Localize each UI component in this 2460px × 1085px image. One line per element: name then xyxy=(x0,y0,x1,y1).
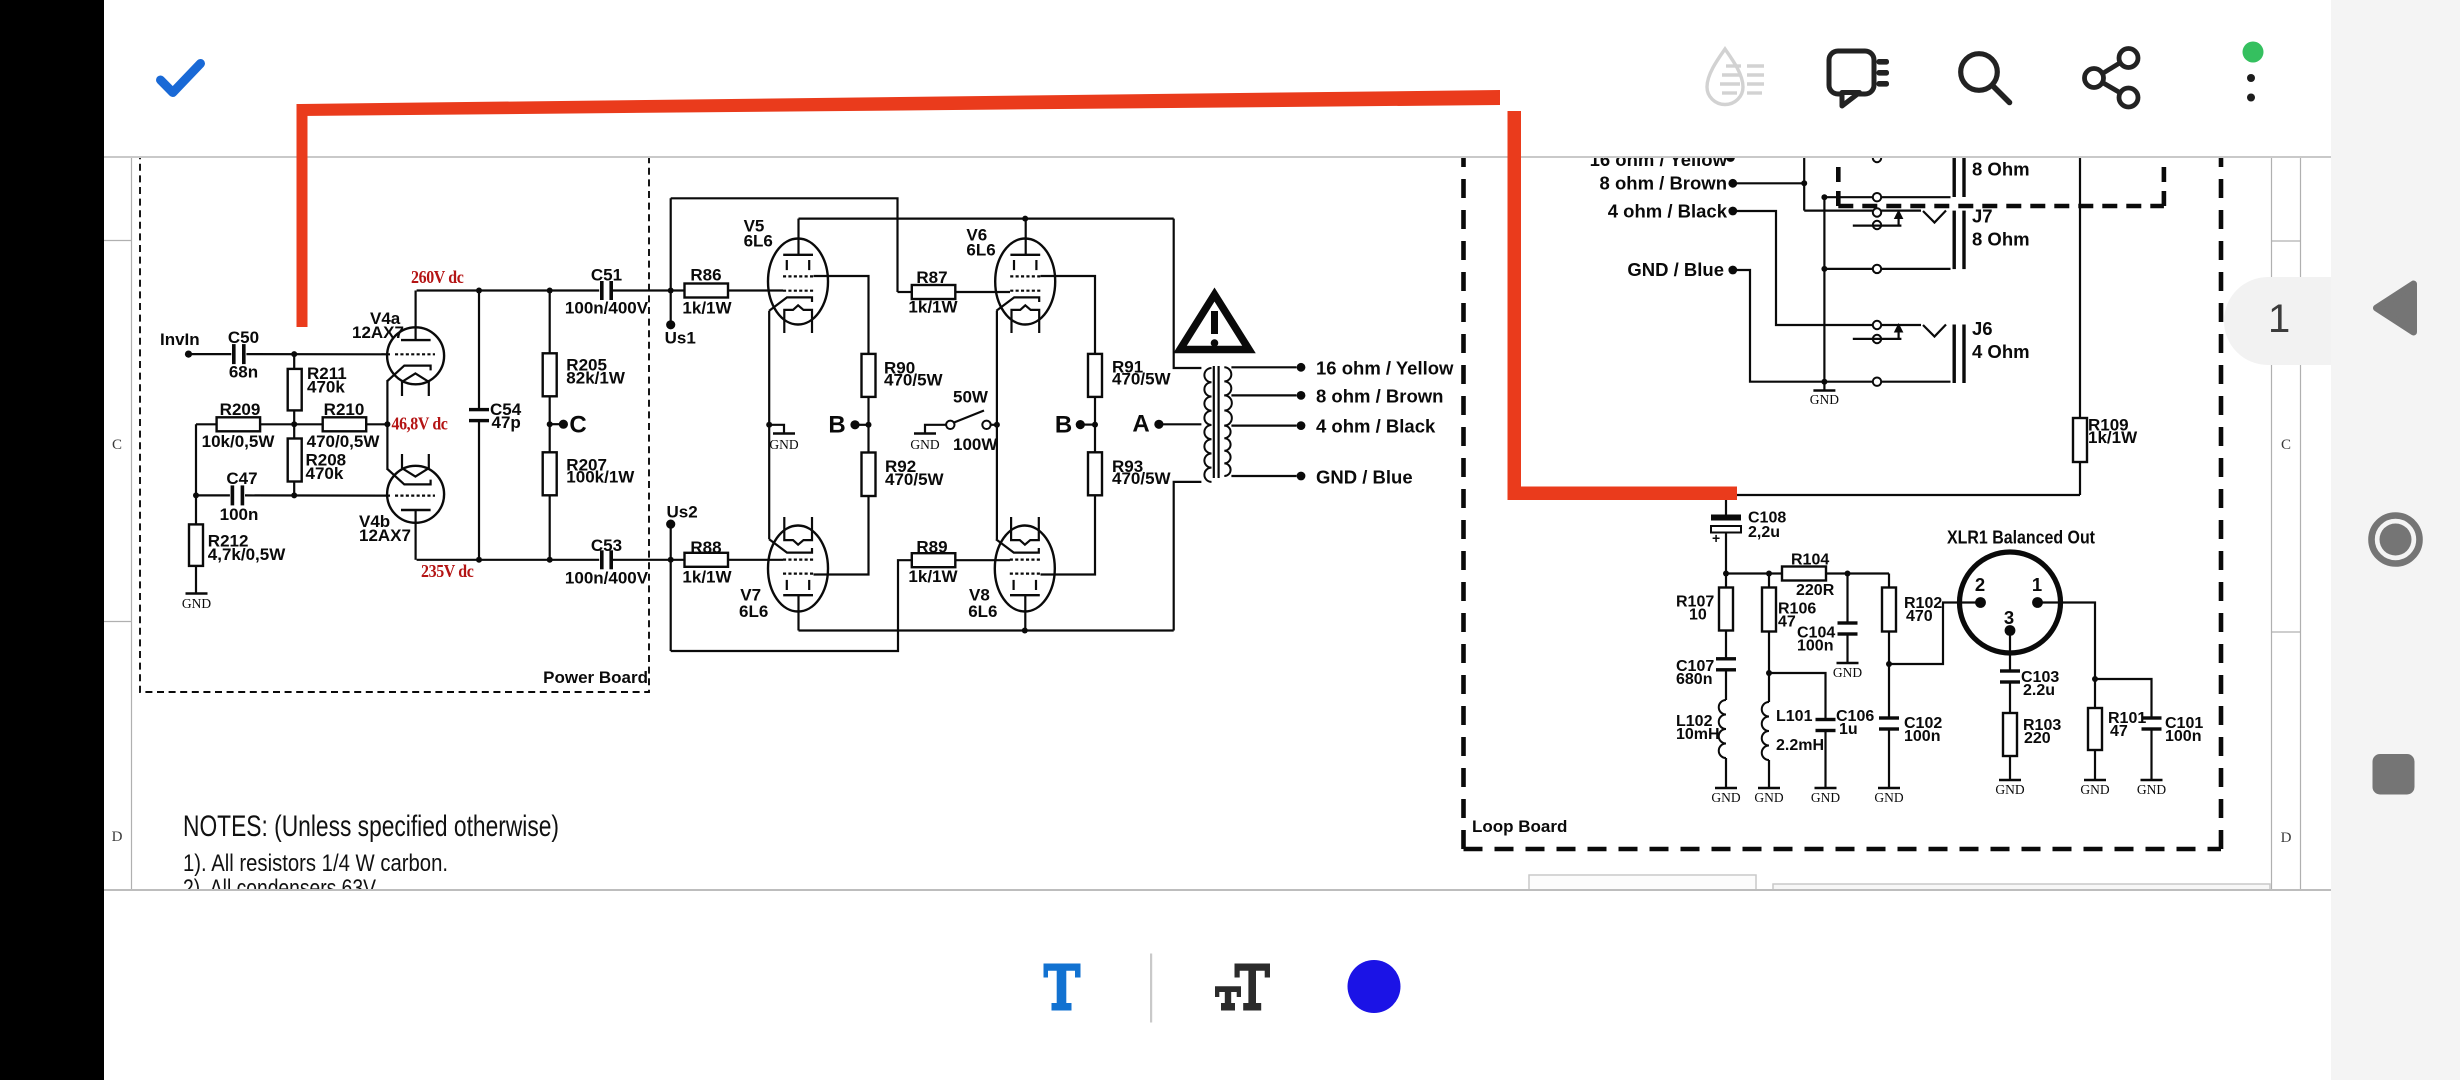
top app toolbar xyxy=(104,0,2331,158)
svg-text:6L6: 6L6 xyxy=(968,602,997,621)
ink annotation icon (disabled) xyxy=(1707,49,1764,105)
resistor R106 xyxy=(1762,588,1776,632)
node InvIn terminal xyxy=(185,351,192,358)
svg-text:2: 2 xyxy=(1975,574,1985,595)
wire R212 top xyxy=(195,495,197,524)
svg-text:C47: C47 xyxy=(226,469,257,488)
svg-text:47: 47 xyxy=(2110,723,2128,740)
text tool icon (active) xyxy=(1044,964,1081,1011)
tube V5 6L6 xyxy=(768,239,828,325)
resistor R209 xyxy=(217,417,261,431)
wire V5/V7 cathode line xyxy=(768,311,770,539)
resistor R87 xyxy=(912,285,956,299)
svg-text:2.2u: 2.2u xyxy=(2023,682,2055,699)
svg-text:12AX7: 12AX7 xyxy=(352,323,404,342)
page number pill xyxy=(2224,277,2331,365)
wire pin3 wire xyxy=(2009,631,2011,672)
resistor R90 xyxy=(862,354,876,397)
ground R101 ground xyxy=(2084,779,2106,781)
svg-text:8 Ohm: 8 Ohm xyxy=(1972,159,2030,180)
ground R212 ground xyxy=(186,592,208,594)
svg-text:100n/400V: 100n/400V xyxy=(565,299,649,318)
svg-text:GND: GND xyxy=(2080,782,2109,797)
wire C47 left xyxy=(196,494,230,496)
node XLR pin3 xyxy=(2005,625,2016,636)
Power Board dashed border xyxy=(140,120,649,692)
text size icon xyxy=(1215,964,1270,1011)
wire C102 gnd wire xyxy=(1888,729,1890,788)
node cathode bias node xyxy=(384,421,390,427)
wire feedback wire xyxy=(1726,494,2080,496)
resistor R211 xyxy=(288,369,302,411)
resistor R104 xyxy=(1782,567,1826,581)
svg-text:R88: R88 xyxy=(690,538,721,557)
node sleeve n3 xyxy=(1821,379,1827,385)
node node C xyxy=(559,420,568,429)
wire R89 out xyxy=(955,559,1010,561)
svg-text:GND: GND xyxy=(1995,782,2024,797)
ground R103 ground xyxy=(1999,779,2021,781)
nav home button xyxy=(2372,516,2420,564)
node V6 cathode node xyxy=(994,422,1000,428)
tube V4b 12AX7 xyxy=(387,466,444,523)
resistor R89 xyxy=(912,553,956,567)
ground C101 ground xyxy=(2141,779,2163,781)
wire R92 to V7 screen xyxy=(814,496,869,575)
node L101/C106 node xyxy=(1766,670,1772,676)
wire R207 bot wire xyxy=(549,495,551,560)
wire gnd feed wire xyxy=(1737,270,1951,382)
wire R88 out xyxy=(728,559,783,561)
svg-text:A: A xyxy=(1132,411,1149,438)
svg-text:R209: R209 xyxy=(220,400,261,419)
wire Us2 vertical xyxy=(670,524,672,651)
wire loop bus b xyxy=(1826,572,1889,574)
svg-text:68n: 68n xyxy=(229,363,258,382)
svg-text:GND / Blue: GND / Blue xyxy=(1316,467,1413,488)
node 16ohm feed xyxy=(1726,153,1735,162)
red annotation left vertical stroke xyxy=(297,104,308,327)
page column line left xyxy=(131,157,133,889)
resistor R103 xyxy=(2003,713,2017,756)
wire pin2 wire xyxy=(1889,603,1981,665)
wire V5 screen to R90 xyxy=(814,276,869,354)
node sleeve n1 xyxy=(1821,194,1827,200)
node C51/Us1 node xyxy=(668,288,674,294)
inductor T1 primary xyxy=(1204,368,1211,482)
svg-text:100n: 100n xyxy=(220,505,259,524)
node Us1 terminal xyxy=(666,320,675,329)
svg-text:50W: 50W xyxy=(953,388,989,407)
share icon xyxy=(2085,49,2139,108)
svg-text:10mH: 10mH xyxy=(1676,726,1720,743)
node R211/R209/R210 node xyxy=(291,421,297,427)
svg-text:GND: GND xyxy=(910,437,939,452)
wire sleeve bus xyxy=(1823,197,1825,382)
tube V6 6L6 xyxy=(995,239,1055,325)
resistor R109 xyxy=(2073,418,2087,462)
wire R106-L101 xyxy=(1768,632,1770,703)
svg-text:470/5W: 470/5W xyxy=(884,371,944,390)
ground L101 ground xyxy=(1758,787,1780,789)
resistor R107 xyxy=(1719,588,1733,631)
svg-text:GND: GND xyxy=(1874,790,1903,805)
resistor R86 xyxy=(685,284,729,298)
svg-text:10: 10 xyxy=(1689,607,1707,624)
svg-text:B: B xyxy=(1055,412,1072,439)
node XLR pin2 xyxy=(1975,597,1986,608)
resistor R210 xyxy=(323,417,367,431)
inductor L102 xyxy=(1719,700,1726,758)
node V5 cathode node xyxy=(766,422,772,428)
svg-text:R86: R86 xyxy=(690,266,721,285)
jack J8 top 8 Ohm (cut) xyxy=(1953,145,1956,197)
svg-text:GND: GND xyxy=(1754,790,1783,805)
wire R87 in xyxy=(898,291,912,293)
wire tap 4ohm xyxy=(1231,425,1296,427)
wire R106 top xyxy=(1768,574,1770,588)
svg-text:C51: C51 xyxy=(591,266,622,285)
svg-text:470/5W: 470/5W xyxy=(885,470,945,489)
wire L102 gnd wire xyxy=(1725,758,1727,788)
node 16ohm tap xyxy=(1297,363,1306,372)
comment icon xyxy=(1829,51,1874,94)
ground C106 ground xyxy=(1815,787,1837,789)
svg-text:D: D xyxy=(112,829,123,845)
svg-text:R104: R104 xyxy=(1791,552,1829,569)
wire V4a/V4b cathode link xyxy=(386,380,388,470)
wire C103-R103 xyxy=(2009,682,2011,713)
wire R101 gnd wire xyxy=(2094,750,2096,780)
svg-text:R210: R210 xyxy=(324,400,365,419)
svg-text:R89: R89 xyxy=(916,538,947,557)
wire R86 out xyxy=(728,289,783,291)
svg-text:GND: GND xyxy=(1833,665,1862,680)
svg-text:R87: R87 xyxy=(916,268,947,287)
node B1 junction xyxy=(866,422,872,428)
wire jack gnd stub xyxy=(1823,382,1825,391)
wire 8ohm feed wire xyxy=(1737,182,1804,184)
wire rail B Us2 to R89 xyxy=(671,560,912,651)
svg-text:100n/400V: 100n/400V xyxy=(565,569,649,588)
wire tap gnd xyxy=(1231,475,1296,477)
svg-text:10k/0,5W: 10k/0,5W xyxy=(202,432,276,451)
capacitor C101 xyxy=(2142,716,2162,719)
wire R210 left xyxy=(294,423,323,425)
left black bar xyxy=(0,0,104,1080)
resistor R93 xyxy=(1088,452,1102,495)
svg-text:100n: 100n xyxy=(1797,638,1833,655)
resistor R205 xyxy=(543,353,557,396)
wire tap 16ohm xyxy=(1231,366,1296,368)
wire R209 left xyxy=(196,423,217,425)
ground jack ground xyxy=(1813,389,1835,391)
svg-text:1k/1W: 1k/1W xyxy=(682,568,732,587)
node R101 node xyxy=(2092,676,2098,682)
node C54 top node xyxy=(476,288,482,294)
wire V4a plate lead xyxy=(415,291,417,341)
svg-text:1k/1W: 1k/1W xyxy=(2088,428,2138,447)
capacitor C104 xyxy=(1838,621,1858,624)
svg-text:6L6: 6L6 xyxy=(739,602,768,621)
node B2 junction xyxy=(1092,422,1098,428)
node R207 bot node xyxy=(547,557,553,563)
wire R208 bottom xyxy=(293,482,295,496)
svg-text:C53: C53 xyxy=(591,536,622,555)
wire C54 bot wire xyxy=(478,421,480,560)
node node A xyxy=(1154,420,1163,429)
svg-text:GND: GND xyxy=(1811,790,1840,805)
svg-text:8 ohm / Brown: 8 ohm / Brown xyxy=(1600,173,1727,194)
inductor T1 secondary c xyxy=(1224,426,1230,476)
node grid node xyxy=(291,351,297,357)
wire R205 bot wire xyxy=(549,396,551,452)
capacitor C102 xyxy=(1879,716,1899,719)
node R205 top node xyxy=(547,288,553,294)
red annotation right vertical stroke xyxy=(1508,111,1522,498)
svg-text:J7: J7 xyxy=(1972,206,1993,227)
wire R211 top xyxy=(293,354,295,369)
node C node small xyxy=(547,421,553,427)
capacitor C103 xyxy=(2000,669,2020,672)
wire C47 to V4b grid xyxy=(245,494,390,496)
node C47 left node xyxy=(193,492,199,498)
svg-text:XLR1 Balanced Out: XLR1 Balanced Out xyxy=(1947,527,2095,548)
ground cathode ground left xyxy=(773,432,795,434)
node gnd feed xyxy=(1728,266,1737,275)
node sleeve n2 xyxy=(1821,266,1827,272)
dashed box around top jack xyxy=(1838,140,2164,206)
capacitor C51 xyxy=(600,281,604,300)
node gnd tap xyxy=(1297,472,1306,481)
wire pin1 wire xyxy=(2038,603,2096,709)
wire C106 gnd wire xyxy=(1824,731,1826,789)
resistor R88 xyxy=(685,553,729,567)
svg-text:4,7k/0,5W: 4,7k/0,5W xyxy=(208,545,286,564)
transformer core xyxy=(1213,366,1215,478)
ground L102 ground xyxy=(1715,787,1737,789)
svg-text:680n: 680n xyxy=(1676,671,1712,688)
color swatch (blue) xyxy=(1348,960,1401,1013)
svg-text:4 ohm / Black: 4 ohm / Black xyxy=(1608,201,1728,222)
svg-text:470/0,5W: 470/0,5W xyxy=(307,432,381,451)
svg-text:4 ohm / Black: 4 ohm / Black xyxy=(1316,416,1436,437)
svg-text:Power Board: Power Board xyxy=(543,668,648,687)
svg-text:C: C xyxy=(2281,437,2291,453)
ground C102 ground xyxy=(1878,787,1900,789)
wire 16ohm vertical xyxy=(1803,150,1805,211)
wire switch gnd hook xyxy=(925,425,946,434)
node XLR pin1 xyxy=(2032,597,2043,608)
node V6 anode node xyxy=(1022,216,1028,222)
capacitor C53 xyxy=(600,550,604,569)
check/done icon xyxy=(161,64,201,93)
wire C54 top wire xyxy=(478,291,480,410)
svg-text:1u: 1u xyxy=(1839,721,1858,738)
wire R109 bottom wire xyxy=(2079,462,2081,495)
wire plate rail up xyxy=(1174,482,1202,631)
toolbar divider xyxy=(1150,954,1152,1023)
svg-text:2,2u: 2,2u xyxy=(1748,524,1780,541)
tube V8 6L6 xyxy=(995,526,1055,612)
svg-text:GND: GND xyxy=(2137,782,2166,797)
node node B1 xyxy=(850,420,859,429)
svg-text:16 ohm / Yellow: 16 ohm / Yellow xyxy=(1316,358,1454,379)
svg-text:220R: 220R xyxy=(1796,582,1835,599)
svg-text:GND / Blue: GND / Blue xyxy=(1627,259,1724,280)
svg-text:12AX7: 12AX7 xyxy=(359,526,411,545)
wire R208 top xyxy=(293,424,295,438)
overflow menu icon xyxy=(2247,54,2255,62)
green status dot xyxy=(2243,42,2264,63)
svg-text:D: D xyxy=(2281,830,2292,846)
wire transformer top leg xyxy=(1174,219,1202,368)
wire C108 bot wire xyxy=(1725,533,1727,588)
wire C104 feed xyxy=(1846,574,1848,624)
wire 260V rail xyxy=(417,289,600,291)
android nav sidebar xyxy=(2331,0,2460,1080)
wire input to C50 xyxy=(189,353,232,355)
svg-text:4 Ohm: 4 Ohm xyxy=(1972,341,2030,362)
svg-text:8 ohm / Brown: 8 ohm / Brown xyxy=(1316,386,1443,407)
node V4b grid node xyxy=(291,492,297,498)
wire R102 top xyxy=(1888,574,1890,588)
wire V4b plate lead xyxy=(415,510,417,560)
svg-text:C50: C50 xyxy=(228,328,259,347)
wire loop bus xyxy=(1726,572,1782,574)
wire C101 gnd wire xyxy=(2150,729,2152,780)
wire C106 feed xyxy=(1769,673,1826,720)
node C104 top node xyxy=(1845,571,1851,577)
svg-text:82k/1W: 82k/1W xyxy=(566,369,626,388)
wire R87 out xyxy=(955,291,1010,293)
svg-text:GND: GND xyxy=(182,596,211,611)
wire V6 screen to R91 xyxy=(1041,276,1096,354)
svg-text:8 Ohm: 8 Ohm xyxy=(1972,229,2030,250)
svg-text:InvIn: InvIn xyxy=(160,330,200,349)
wire R210 right xyxy=(366,423,387,425)
svg-text:47: 47 xyxy=(1778,614,1796,631)
wire 235V rail b xyxy=(610,559,685,561)
resistor R101 xyxy=(2088,708,2102,750)
wire C101 feed xyxy=(2095,679,2152,718)
warning triangle symbol xyxy=(1180,295,1249,350)
capacitor C54 xyxy=(469,408,489,411)
resistor R208 xyxy=(288,439,302,482)
tube V4a 12AX7 xyxy=(387,327,444,384)
node 8ohm junction xyxy=(1801,180,1807,186)
red annotation horizontal top stroke xyxy=(300,90,1500,116)
wire C108 top wire xyxy=(1725,495,1727,515)
node R106 top node xyxy=(1766,571,1772,577)
node V8 plate node xyxy=(1022,628,1028,634)
wire plate rail V7/V8 xyxy=(799,629,1174,631)
wire J7 sleeve wire xyxy=(1824,268,1950,270)
wire R209 node down xyxy=(195,424,197,495)
wire J6 switch underline xyxy=(1853,338,1902,340)
wire C107-L102 xyxy=(1725,670,1727,700)
wire C50 to V4a grid xyxy=(246,353,390,355)
svg-text:470k: 470k xyxy=(307,378,345,397)
wire R103 gnd wire xyxy=(2009,756,2011,780)
node node B2 xyxy=(1076,420,1085,429)
svg-text:46,8V dc: 46,8V dc xyxy=(392,414,449,434)
node 8ohm tap xyxy=(1297,391,1306,400)
svg-text:100n: 100n xyxy=(1904,728,1940,745)
node C53/Us2 node xyxy=(668,557,674,563)
nav recents square xyxy=(2373,754,2415,795)
wire 4ohm feed wire xyxy=(1737,211,1921,325)
resistor R91 xyxy=(1088,354,1102,397)
wire B2 stub xyxy=(1080,424,1095,426)
svg-text:260V dc: 260V dc xyxy=(411,267,464,287)
wire 235V rail xyxy=(417,559,600,561)
node loop node main xyxy=(1723,571,1729,577)
wire top rail V5-transformer xyxy=(799,218,1174,220)
svg-text:6L6: 6L6 xyxy=(744,232,773,251)
svg-text:470k: 470k xyxy=(306,464,344,483)
capacitor C107 xyxy=(1716,657,1736,660)
wire R211 bottom xyxy=(293,410,295,424)
wire tap 8ohm xyxy=(1231,394,1296,396)
svg-text:100k/1W: 100k/1W xyxy=(566,468,635,487)
wire top rail Us1-R87 xyxy=(671,198,898,292)
node Us2 terminal xyxy=(666,520,675,529)
svg-text:3: 3 xyxy=(2004,607,2014,628)
wire switch to cathode xyxy=(991,424,997,426)
wire C104 gnd wire xyxy=(1846,634,1848,663)
svg-text:L101: L101 xyxy=(1776,708,1813,725)
svg-text:C: C xyxy=(112,437,122,453)
inductor L101 xyxy=(1762,702,1769,760)
page column lines right xyxy=(2271,157,2273,889)
node 4ohm feed xyxy=(1728,207,1737,216)
wire Us1 vertical xyxy=(670,198,672,324)
wire 260V rail b xyxy=(610,289,685,291)
svg-text:470/5W: 470/5W xyxy=(1112,469,1172,488)
jack J6 4 Ohm xyxy=(1923,325,1946,337)
wire R102-C102 xyxy=(1888,632,1890,719)
capacitor C106 xyxy=(1816,718,1836,721)
capacitor C47 xyxy=(231,485,235,505)
bottom annotation toolbar xyxy=(104,891,2331,1080)
wire L101 gnd wire xyxy=(1768,760,1770,788)
svg-text:100W: 100W xyxy=(953,435,998,454)
resistor R207 xyxy=(543,452,557,495)
ground switch ground xyxy=(914,432,936,434)
svg-text:GND: GND xyxy=(1711,790,1740,805)
inductor T1 secondary a xyxy=(1224,367,1231,395)
wire R107-C107 xyxy=(1725,631,1727,660)
wire A to primary tap xyxy=(1159,423,1202,425)
resistor R102 xyxy=(1882,588,1896,632)
wire R109 top wire xyxy=(2079,150,2081,418)
wire V6/V8 cathode line xyxy=(996,311,998,539)
nav back triangle xyxy=(2377,284,2414,332)
node 4ohm tap xyxy=(1297,421,1306,430)
svg-text:100n: 100n xyxy=(2165,728,2201,745)
wire J7 tip wire xyxy=(1804,210,1921,212)
wire R90 to B1 xyxy=(867,397,869,453)
svg-text:2.2mH: 2.2mH xyxy=(1776,737,1824,754)
wire R91 to B2 xyxy=(1094,397,1096,452)
node C54 bot node xyxy=(476,557,482,563)
svg-text:220: 220 xyxy=(2024,730,2051,747)
svg-text:470: 470 xyxy=(1906,608,1933,625)
svg-text:6L6: 6L6 xyxy=(966,241,995,260)
wire C node stub xyxy=(550,423,564,425)
svg-text:GND: GND xyxy=(1810,392,1839,407)
